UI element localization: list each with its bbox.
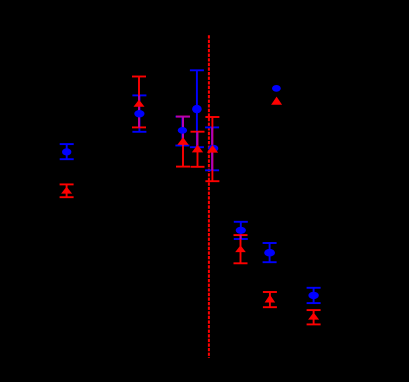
blue circle marker 2	[134, 110, 144, 117]
blue circle marker 6	[272, 85, 281, 92]
blue errorbar point 8 (x=269.6)	[263, 243, 277, 262]
blue errorbar point 4 (x=196.9)	[190, 70, 204, 147]
red triangle marker 8	[265, 295, 276, 303]
magenta overlap top cap cluster C-left	[176, 116, 190, 118]
red triangle marker 3	[177, 137, 188, 145]
blue circle marker 5	[208, 145, 218, 152]
red triangle marker 4	[192, 145, 203, 153]
blue errorbar point 1 (x=66.7)	[60, 144, 74, 159]
red triangle marker 9	[308, 313, 319, 320]
blue circle marker 9	[308, 292, 318, 299]
magenta overlap segment cluster C-left	[182, 117, 184, 146]
red errorbar point 1 (x=66.6)	[60, 184, 74, 197]
red errorbar point 3 (x=183.0)	[176, 117, 190, 167]
red triangle marker 7	[235, 245, 246, 252]
magenta overlap segment cluster D	[211, 127, 213, 170]
blue errorbar point 9 (x=313.6)	[307, 288, 321, 303]
magenta overlap segment cluster B	[138, 95, 140, 127]
blue circle marker 8	[264, 249, 275, 257]
magenta overlap segment cluster C-right	[196, 132, 198, 148]
red errorbar point 5 (x=212.4)	[205, 117, 219, 181]
blue circle marker 1	[62, 148, 71, 155]
red triangle marker 1	[61, 187, 72, 194]
blue circle marker 4	[192, 105, 202, 113]
red errorbar point 2 (x=139.0)	[132, 77, 146, 128]
red errorbar point 4 (x=197.5)	[191, 132, 205, 167]
vertical dashed red limit line	[208, 35, 210, 358]
blue errorbar point 2 (x=139.4)	[132, 95, 146, 131]
red triangle marker 5	[207, 145, 218, 153]
blue errorbar point 3 (x=182.4)	[175, 117, 189, 146]
red triangle marker 6	[271, 97, 282, 105]
blue circle marker 3	[178, 127, 187, 134]
blue errorbar point 7 (x=240.8)	[234, 222, 248, 239]
red errorbar point 7 (x=240.5)	[234, 235, 248, 263]
blue circle marker 7	[236, 227, 246, 234]
red errorbar point 8 (x=269.9)	[263, 292, 277, 307]
red triangle marker 2	[134, 100, 145, 107]
magenta overlap segment cluster F	[240, 235, 242, 239]
red errorbar point 9 (x=313.6)	[307, 310, 321, 324]
blue errorbar point 5 (x=212.6)	[205, 127, 219, 170]
